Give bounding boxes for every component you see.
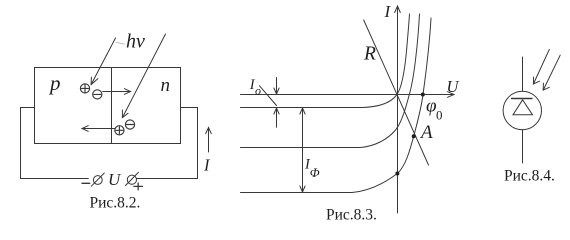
illuminated I-V curve 2 <box>241 18 432 193</box>
dark I-V curve <box>241 14 410 108</box>
svg-text:Рис.8.4.: Рис.8.4. <box>504 168 555 185</box>
load line R <box>364 20 429 165</box>
wire bottom left <box>21 178 89 180</box>
I axis <box>395 6 401 213</box>
light ray hv 1 <box>91 38 115 85</box>
hole drift arrow <box>82 126 115 132</box>
light arrow 1 <box>533 49 549 84</box>
svg-text:n: n <box>161 75 171 96</box>
svg-text:φ: φ <box>426 96 437 117</box>
electron drift arrow <box>103 89 131 95</box>
diode triangle <box>513 100 533 115</box>
open-circuit point phi0 <box>421 93 425 97</box>
svg-text:I: I <box>203 156 211 175</box>
svg-text:Φ: Φ <box>310 165 320 180</box>
svg-text:o: o <box>255 83 261 97</box>
terminal socket left <box>91 173 104 186</box>
leader to hv label <box>117 43 125 45</box>
I0 leader line <box>260 86 277 106</box>
electron symbol 2 <box>125 120 134 129</box>
I_phi dimension arrow <box>300 108 305 192</box>
plus sign at terminal <box>134 183 143 190</box>
light ray hv 2 <box>122 34 165 118</box>
p-n junction line <box>111 68 113 144</box>
light arrow 2 <box>543 55 560 90</box>
wire bottom <box>522 130 524 163</box>
wire top <box>522 57 524 91</box>
current arrow I <box>206 128 212 153</box>
I0 dimension arrows <box>274 78 279 128</box>
svg-text:I: I <box>384 2 392 21</box>
photodiode circle (Рис.8.4) <box>503 91 541 129</box>
svg-text:p: p <box>48 71 61 95</box>
hole symbol 2 <box>115 126 124 135</box>
svg-text:U: U <box>447 77 460 96</box>
wire right contact <box>181 108 198 179</box>
wire left contact <box>21 108 35 179</box>
wire bottom right <box>137 178 198 180</box>
illuminated I-V curve 1 <box>241 14 420 148</box>
operating point A <box>412 134 416 138</box>
U axis <box>241 92 455 98</box>
svg-text:Рис.8.3.: Рис.8.3. <box>326 207 377 224</box>
svg-text:0: 0 <box>436 107 443 122</box>
terminal socket right <box>125 172 138 185</box>
electron symbol 1 <box>93 90 102 99</box>
hole symbol 1 <box>80 84 89 93</box>
svg-text:hν: hν <box>126 31 145 53</box>
svg-text:U: U <box>108 170 122 189</box>
svg-text:R: R <box>363 44 376 65</box>
svg-text:Рис.8.2.: Рис.8.2. <box>90 194 141 211</box>
photodiode body rectangle <box>35 68 181 144</box>
minus sign at terminal <box>82 182 90 184</box>
point on I axis <box>395 172 399 176</box>
diode cathode bar <box>512 98 533 100</box>
svg-text:A: A <box>419 122 433 143</box>
